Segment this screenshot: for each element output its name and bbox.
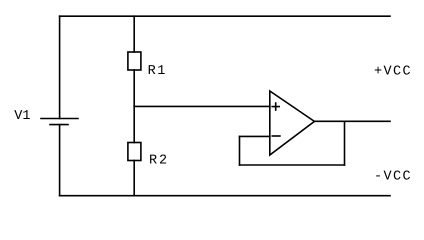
wire feedback bottom horizontal	[240, 164, 345, 166]
battery V1 short plate (-)	[50, 124, 68, 126]
wire - input segment	[240, 135, 270, 137]
svg-text:-VCC: -VCC	[374, 169, 411, 184]
op-amp U1 triangle	[270, 91, 315, 155]
wire feedback left vertical	[239, 136, 241, 165]
wire R2 to bottom rail	[133, 161, 135, 196]
wire left branch lower (V1 - to bottom rail)	[59, 125, 61, 196]
op-amp + input marker	[272, 103, 279, 110]
svg-text:R1: R1	[148, 64, 166, 79]
wire top rail (+VCC net)	[60, 15, 390, 17]
wire top rail to R1	[133, 16, 135, 52]
op-amp - input marker	[272, 135, 280, 137]
resistor R1 body	[128, 52, 141, 70]
wire left branch upper (top rail to V1 +)	[59, 16, 61, 118]
wire feedback right vertical	[344, 121, 346, 165]
wire op-amp output	[314, 120, 390, 122]
svg-text:R2: R2	[149, 153, 167, 168]
wire node A to R2	[133, 106, 135, 142]
battery V1 long plate (+)	[41, 118, 78, 120]
resistor R2 body	[128, 143, 141, 161]
svg-text:V1: V1	[14, 109, 30, 124]
svg-text:+VCC: +VCC	[374, 64, 411, 79]
wire node A to op-amp + input	[134, 105, 270, 107]
wire R1 to node A	[133, 70, 135, 106]
wire bottom rail (-VCC net)	[60, 195, 390, 197]
